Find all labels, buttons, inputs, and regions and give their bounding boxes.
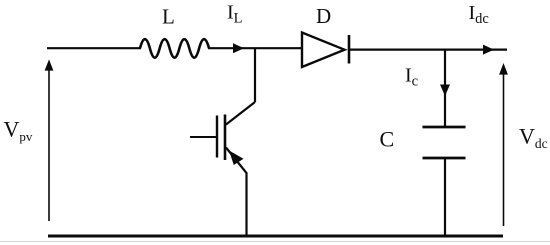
label Idc xyxy=(469,2,489,27)
svg-text:D: D xyxy=(316,4,331,28)
wire: top rail right segment (diode cathode to output) xyxy=(349,48,507,50)
transistor Q1 gate lead wire xyxy=(190,136,216,138)
wire: bottom rail xyxy=(48,235,503,238)
label D xyxy=(316,4,331,28)
diode D cathode bar xyxy=(348,35,351,64)
wire: capacitor branch from top rail xyxy=(444,50,446,127)
node A (junction of inductor, diode, IGBT collector) xyxy=(254,48,256,102)
label L xyxy=(162,5,175,29)
wire: top rail from source to inductor xyxy=(47,47,141,49)
svg-text:Idc: Idc xyxy=(469,2,489,27)
transistor Q1 collector lead xyxy=(226,102,255,125)
svg-text:IL: IL xyxy=(227,2,243,27)
label Ic xyxy=(405,65,418,90)
page bottom hairline xyxy=(0,241,550,243)
arrow Ic (capacitor current arrow) xyxy=(440,85,450,97)
arrow IL (current arrow on top rail) xyxy=(233,43,244,53)
transistor Q1 emitter lead xyxy=(226,148,247,238)
label Vpv xyxy=(4,116,33,144)
svg-text:Vpv: Vpv xyxy=(4,116,33,144)
label IL xyxy=(227,2,243,27)
wire: capacitor bottom lead xyxy=(444,158,446,237)
transistor Q1 body bar xyxy=(224,115,227,161)
label C xyxy=(380,126,395,151)
Vpv voltage arrowhead xyxy=(45,59,54,70)
inductor L (coil) xyxy=(140,39,209,57)
transistor Q1 gate bar xyxy=(216,116,218,158)
capacitor C top plate xyxy=(423,126,466,129)
Vdc voltage arrow line xyxy=(503,72,505,226)
diode D (triangle) xyxy=(302,33,345,68)
wire: top rail from inductor to diode anode xyxy=(208,47,302,49)
svg-text:L: L xyxy=(162,5,175,29)
svg-text:C: C xyxy=(380,126,395,151)
Vdc voltage arrowhead xyxy=(499,63,508,75)
svg-text:Vdc: Vdc xyxy=(519,124,548,152)
transistor Q1 emitter arrowhead xyxy=(229,151,244,166)
arrow Idc (output current arrow) xyxy=(483,45,494,55)
svg-text:Ic: Ic xyxy=(405,65,418,90)
label Vdc xyxy=(519,124,548,152)
Vpv voltage arrow line xyxy=(48,67,50,221)
capacitor C bottom plate xyxy=(423,157,466,160)
